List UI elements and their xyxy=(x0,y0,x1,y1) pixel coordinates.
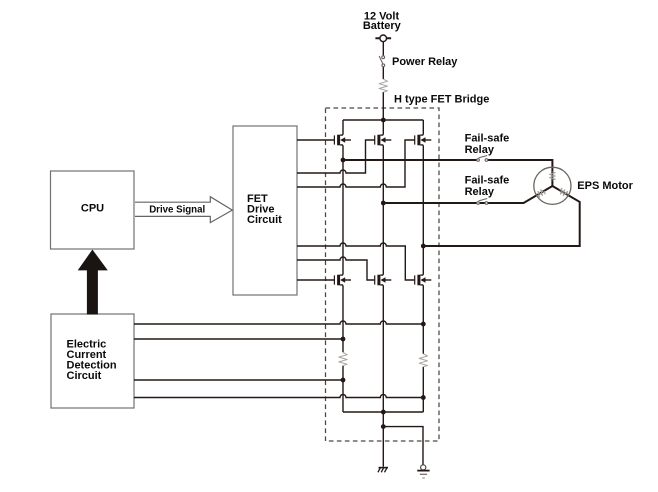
svg-text:Fail-safe: Fail-safe xyxy=(465,174,510,186)
svg-text:CPU: CPU xyxy=(81,202,104,214)
svg-text:Relay: Relay xyxy=(465,144,495,156)
svg-text:H type FET Bridge: H type FET Bridge xyxy=(394,93,489,105)
svg-text:Drive Signal: Drive Signal xyxy=(149,205,205,216)
svg-text:EPS Motor: EPS Motor xyxy=(577,180,633,192)
svg-text:Battery: Battery xyxy=(363,20,402,32)
svg-text:Relay: Relay xyxy=(465,186,495,198)
svg-text:Power Relay: Power Relay xyxy=(392,56,458,68)
svg-text:Circuit: Circuit xyxy=(67,370,102,382)
svg-text:Circuit: Circuit xyxy=(247,214,282,226)
svg-text:Fail-safe: Fail-safe xyxy=(465,133,510,145)
